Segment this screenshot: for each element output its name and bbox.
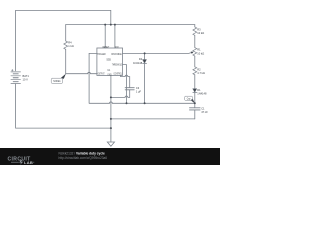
svg-text:R3: R3 <box>197 27 201 31</box>
diode D1 1N4148 <box>193 89 197 108</box>
svg-text:Cap: Cap <box>187 99 191 101</box>
wire vcc stub <box>114 25 116 48</box>
svg-text:R1: R1 <box>197 48 201 52</box>
svg-text:1 µF: 1 µF <box>136 90 142 94</box>
battery plus sign <box>12 69 14 71</box>
threshold wire <box>123 65 127 104</box>
svg-text:OUTPUT: OUTPUT <box>98 73 105 75</box>
wire battery plus to top rail and down to VCC bus <box>16 10 111 70</box>
diode D2 1N4148 <box>143 53 147 103</box>
svg-text:CONTROL: CONTROL <box>114 73 123 75</box>
gnd pin wire <box>110 75 112 128</box>
R1 labels <box>197 48 204 56</box>
C3 return wire to gnd net (hop over threshold wire) <box>111 96 130 97</box>
svg-text:GND: GND <box>107 74 111 76</box>
CircuitLab logo <box>8 156 35 165</box>
svg-text:R2: R2 <box>197 67 201 71</box>
IC U1 555 timer box <box>97 48 123 75</box>
svg-text:D1: D1 <box>197 88 201 92</box>
battery BAT1 <box>11 72 21 84</box>
D1 labels <box>197 88 207 96</box>
C1 return wire to gnd net <box>111 118 195 120</box>
pot wiper arrowhead <box>191 52 194 54</box>
wire battery minus to bottom rail <box>16 84 111 129</box>
control wire to C3 (hop over threshold wire) <box>121 75 130 87</box>
svg-text:1N4148: 1N4148 <box>133 61 143 65</box>
junction dots <box>104 24 196 130</box>
svg-text:C1: C1 <box>201 107 205 111</box>
svg-text:DISCHARGE: DISCHARGE <box>111 53 122 56</box>
footer bar <box>0 148 220 165</box>
ground <box>107 128 114 146</box>
wire reset stub <box>104 25 106 48</box>
VCC bus wire <box>66 24 195 26</box>
resistor R4 1 kΩ <box>64 25 68 74</box>
battery labels <box>23 74 30 82</box>
svg-text:10 V: 10 V <box>23 77 29 81</box>
net flag NODE1 <box>51 74 66 84</box>
trigger wire IC TRIGGER to cap node (hop over gnd wire) <box>89 53 195 103</box>
net flag Cap <box>185 96 195 103</box>
svg-text:1N4148: 1N4148 <box>197 91 207 95</box>
R4 labels <box>68 41 73 49</box>
D2 labels <box>133 57 143 65</box>
svg-text:VCC: VCC <box>115 47 119 49</box>
C1 labels <box>201 107 208 115</box>
svg-text:10 kΩ: 10 kΩ <box>197 51 204 55</box>
svg-text:D2: D2 <box>139 57 143 61</box>
svg-text:LAB: LAB <box>24 160 33 165</box>
svg-text:R4: R4 <box>68 41 72 45</box>
discharge wire to pot wiper <box>123 52 192 55</box>
potentiometer R1 10 kΩ <box>193 48 197 67</box>
svg-text:TRIGGER: TRIGGER <box>97 54 105 56</box>
svg-text:47 nF: 47 nF <box>201 110 208 114</box>
resistor R2 4.7 kΩ <box>193 67 197 89</box>
R3 labels <box>197 27 204 35</box>
svg-text:NODE1: NODE1 <box>53 81 61 83</box>
output wire R4 to IC OUTPUT pin (hop over trigger wire) <box>66 72 97 73</box>
R2 labels <box>197 67 205 75</box>
svg-text:RESET: RESET <box>103 47 110 49</box>
capacitor C1 47 nF <box>190 108 201 119</box>
svg-text:1 kΩ: 1 kΩ <box>68 44 73 48</box>
svg-text:BAT1: BAT1 <box>23 74 30 78</box>
capacitor C3 1 µF <box>125 88 134 98</box>
svg-text:10 kΩ: 10 kΩ <box>197 31 204 35</box>
C3 labels <box>136 86 142 94</box>
svg-text:THRESHOLD: THRESHOLD <box>112 65 122 67</box>
resistor R3 10 kΩ <box>193 25 197 48</box>
svg-text:4.7 kΩ: 4.7 kΩ <box>197 71 205 75</box>
svg-text:NUkk2132 / Variable duty cycle: NUkk2132 / Variable duty cycle <box>59 151 105 155</box>
svg-text:C3: C3 <box>136 86 140 90</box>
svg-text:http://circuitlab.com/c/Q995ru: http://circuitlab.com/c/Q995ru23a6 <box>59 156 108 160</box>
